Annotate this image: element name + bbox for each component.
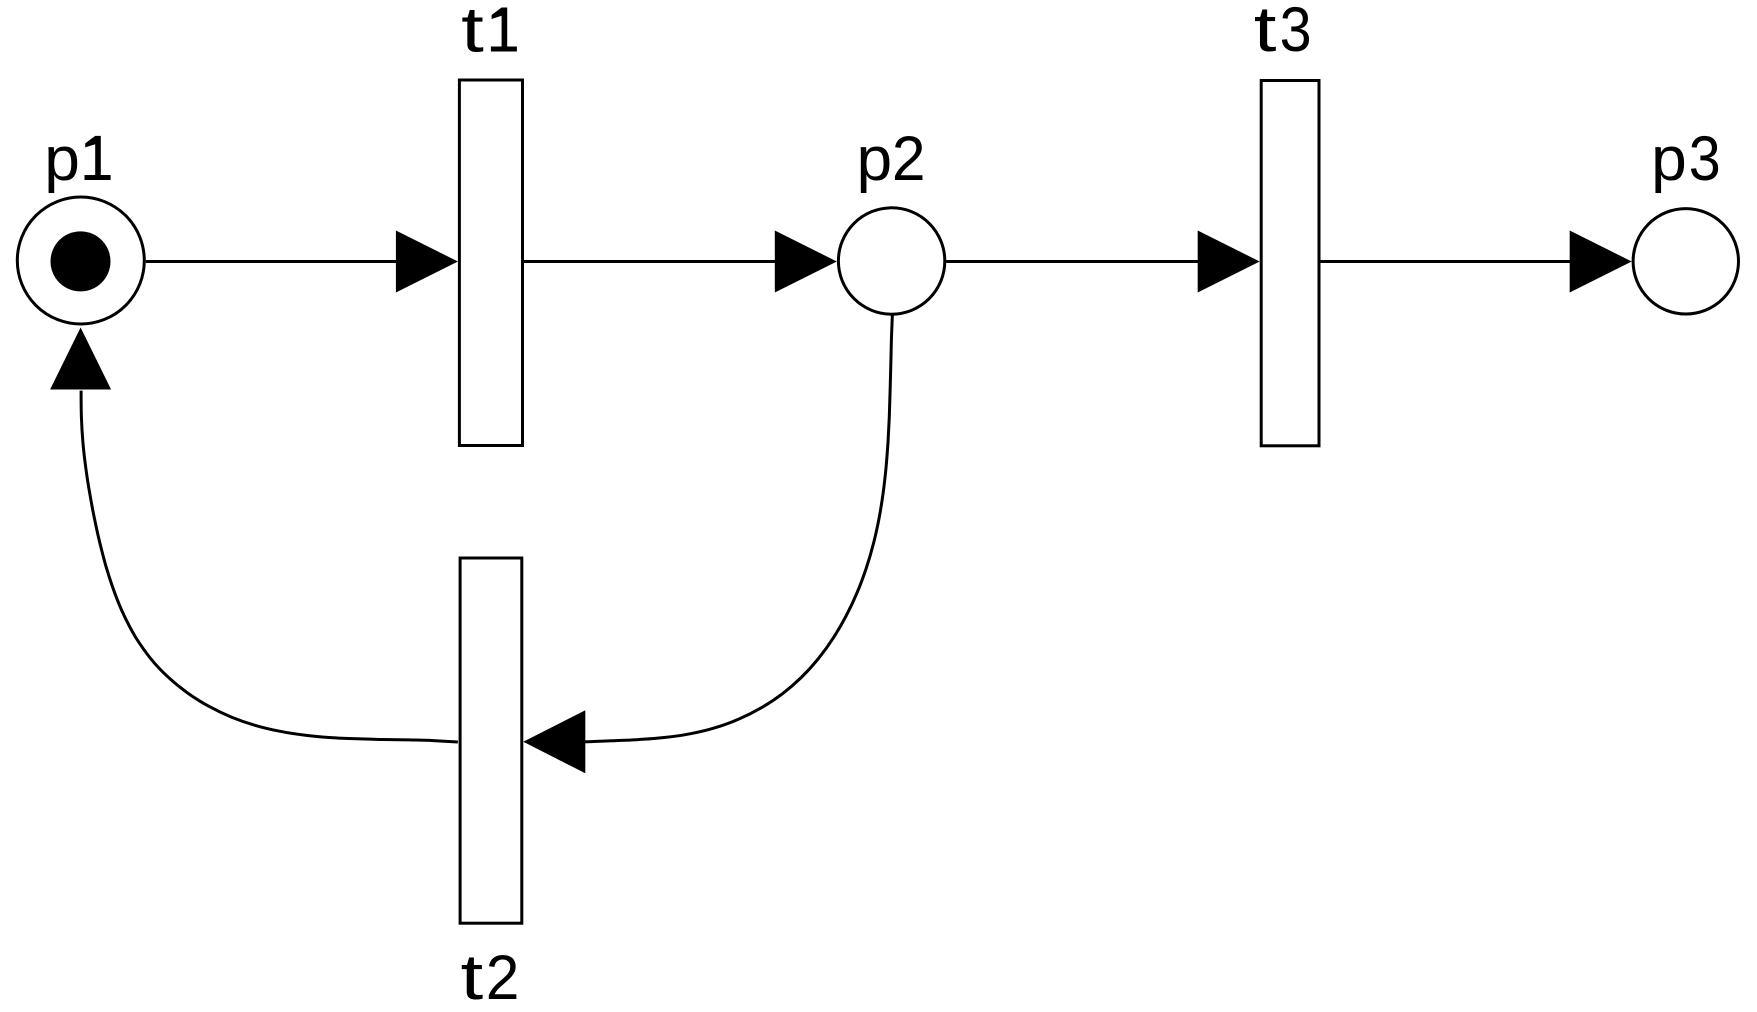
wire t3 to p3 [1319,260,1572,263]
label t3 [1254,0,1312,65]
arrowhead into p3 [1570,231,1632,293]
wire p2 to t2 (curve) [584,314,892,742]
token in p1 [51,231,111,291]
svg-text:t: t [1254,0,1277,65]
svg-text:2: 2 [486,943,520,1012]
arrowhead into p1 [50,328,111,390]
arrowhead into t3 [1198,231,1260,293]
transition t2 [460,558,522,923]
svg-text:p: p [1651,125,1687,194]
label p3 [1651,122,1721,193]
svg-text:3: 3 [1280,0,1312,65]
wire p1 to t1 [146,260,399,263]
transition t3 [1261,81,1319,446]
wire t1 to p2 [524,260,777,263]
arrowhead into t1 [396,231,458,293]
arrowhead into t2 [523,710,585,773]
label t1 [461,0,517,65]
wire p2 to t3 [946,260,1199,263]
svg-text:p: p [44,125,80,194]
svg-text:3: 3 [1689,122,1721,193]
transition t1 [459,80,522,446]
arrowhead into p2 [775,231,837,293]
label p2 [856,124,925,195]
place p3 [1633,209,1738,314]
place p2 [838,208,944,314]
svg-text:t: t [461,0,484,65]
wire t2 to p1 (curve) [81,391,458,742]
label p1 [44,125,110,194]
svg-text:p: p [856,125,892,194]
place p1 [17,197,144,324]
label t2 [461,941,520,1012]
svg-text:t: t [461,941,484,1012]
svg-text:2: 2 [892,124,926,195]
